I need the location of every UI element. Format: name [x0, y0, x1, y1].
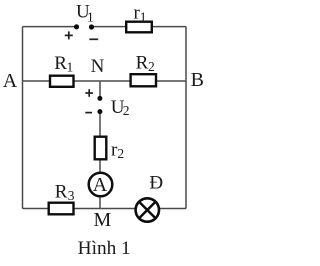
svg-text:R: R	[55, 181, 68, 202]
svg-text:M: M	[94, 209, 112, 231]
svg-text:2: 2	[123, 103, 130, 118]
svg-text:R: R	[136, 53, 149, 74]
svg-text:B: B	[191, 69, 204, 91]
svg-text:N: N	[91, 56, 105, 77]
svg-text:Hình 1: Hình 1	[78, 238, 131, 259]
svg-text:3: 3	[68, 188, 75, 203]
svg-text:A: A	[93, 174, 108, 196]
svg-text:2: 2	[117, 146, 124, 161]
svg-text:Đ: Đ	[149, 172, 163, 193]
svg-text:1: 1	[87, 10, 94, 25]
svg-text:A: A	[3, 70, 18, 92]
svg-text:R: R	[54, 53, 67, 74]
svg-text:1: 1	[140, 10, 147, 25]
svg-text:1: 1	[67, 60, 74, 75]
svg-text:2: 2	[148, 59, 155, 74]
